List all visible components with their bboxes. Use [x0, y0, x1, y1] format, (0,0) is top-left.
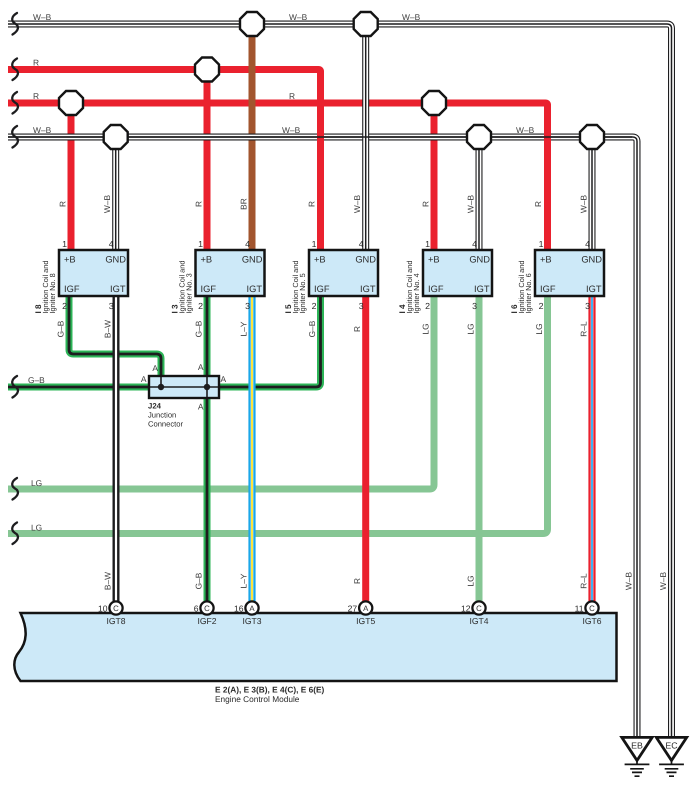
svg-text:IGT: IGT [474, 284, 490, 294]
svg-text:IGF: IGF [540, 284, 556, 294]
junction connector J24 [149, 376, 219, 398]
svg-text:4: 4 [585, 239, 590, 249]
wire W-B row4 to ground EB [8, 137, 637, 738]
svg-text:W–B: W–B [33, 125, 52, 135]
wire R drop to I8 +B [68, 103, 75, 250]
wire G-B I8 IGF to J24 [69, 296, 161, 376]
svg-text:3: 3 [359, 301, 364, 311]
svg-text:Engine Control Module: Engine Control Module [215, 694, 300, 704]
svg-text:IGT5: IGT5 [356, 616, 375, 626]
svg-text:W–B: W–B [289, 12, 308, 22]
svg-text:R–L: R–L [579, 321, 589, 337]
svg-text:C: C [204, 604, 210, 613]
wire W-B drop to I4 GND [476, 137, 483, 250]
svg-text:IGT8: IGT8 [106, 616, 125, 626]
svg-text:L–Y: L–Y [239, 321, 249, 336]
wire W-B drop to I8 GND [112, 137, 119, 250]
svg-text:2: 2 [539, 301, 544, 311]
svg-text:Igniter No. 6: Igniter No. 6 [524, 273, 533, 313]
connector continuation LG row A [12, 478, 18, 500]
svg-text:+B: +B [428, 255, 440, 265]
svg-text:R: R [352, 578, 362, 584]
svg-text:4: 4 [472, 239, 477, 249]
svg-text:A: A [249, 604, 255, 613]
svg-text:B–W: B–W [103, 572, 113, 590]
designator label J24 Junction Connector [148, 402, 184, 429]
name label Ignition Coil and Igniter No. 5 [291, 260, 307, 313]
name label Ignition Coil and Igniter No. 3 [178, 260, 194, 313]
svg-text:Igniter No. 8: Igniter No. 8 [48, 273, 57, 313]
junction connector on row1 feeding I5 GND [354, 12, 378, 36]
wire R row3 horizontal run [8, 100, 544, 107]
svg-text:12: 12 [461, 603, 471, 613]
ignition coil and igniter I 6 (Ignition Coil and Igniter No. 6) [535, 250, 604, 296]
svg-text:IGT4: IGT4 [469, 616, 488, 626]
svg-text:4: 4 [359, 239, 364, 249]
svg-text:G–B: G–B [56, 320, 66, 337]
node: J24 left pin dot [158, 384, 164, 390]
svg-text:2: 2 [62, 301, 67, 311]
junction connector on row3 feeding I4 +B [422, 91, 446, 115]
junction connector on row4 feeding I6 GND [580, 125, 604, 149]
wire W-B drop to I6 GND [589, 137, 596, 250]
svg-text:R: R [194, 201, 204, 207]
wire R corner to I5 +B [315, 70, 321, 251]
ignition coil and igniter I 3 (Ignition Coil and Igniter No. 3) [196, 250, 265, 296]
svg-text:L–Y: L–Y [239, 573, 249, 588]
svg-text:IGT: IGT [110, 284, 126, 294]
svg-text:IGT6: IGT6 [582, 616, 601, 626]
svg-text:W–B: W–B [624, 572, 634, 591]
terminal IGT5: pin 27, connector A [348, 601, 376, 625]
ignition coil and igniter I 5 (Ignition Coil and Igniter No. 5) [309, 250, 378, 296]
svg-text:1: 1 [312, 239, 317, 249]
svg-text:3: 3 [472, 301, 477, 311]
junction connector on row3 feeding I8 +B [59, 91, 83, 115]
junction connector on row2 feeding I3 +B [195, 58, 219, 82]
wire LG I4 IGT to ECM IGT4 [476, 296, 483, 602]
svg-text:IGT: IGT [360, 284, 376, 294]
ground point EC [656, 737, 686, 776]
svg-text:LG: LG [31, 478, 42, 488]
wire W-B drop to I5 GND [362, 24, 369, 250]
svg-text:R: R [533, 201, 543, 207]
svg-text:W–B: W–B [33, 12, 52, 22]
svg-text:R: R [352, 326, 362, 332]
svg-text:R: R [33, 91, 39, 101]
svg-text:+B: +B [201, 255, 213, 265]
svg-text:+B: +B [64, 255, 76, 265]
svg-text:GND: GND [581, 255, 602, 265]
wire BR drop to I3 GND [249, 24, 256, 250]
connector continuation W-B row1 [12, 13, 18, 35]
svg-text:Junction: Junction [148, 411, 176, 420]
junction connector on row1 feeding BR [240, 12, 264, 36]
svg-text:2: 2 [425, 301, 430, 311]
svg-text:R: R [58, 201, 68, 207]
svg-text:Igniter No. 5: Igniter No. 5 [298, 273, 307, 313]
ignition coil and igniter I 4 (Ignition Coil and Igniter No. 4) [423, 250, 492, 296]
connector continuation G-B row [12, 376, 18, 398]
svg-text:LG: LG [534, 323, 544, 334]
svg-text:2: 2 [312, 301, 317, 311]
svg-text:16: 16 [234, 603, 244, 613]
svg-text:GND: GND [105, 255, 126, 265]
svg-text:BR: BR [239, 198, 249, 210]
svg-text:G–B: G–B [194, 320, 204, 337]
wire B-W I8 IGT to ECM IGT8 [113, 296, 120, 602]
svg-text:IGT3: IGT3 [242, 616, 261, 626]
name label Ignition Coil and Igniter No. 4 [405, 260, 421, 313]
svg-text:1: 1 [425, 239, 430, 249]
svg-text:Connector: Connector [148, 420, 184, 429]
svg-text:EC: EC [665, 741, 678, 751]
svg-text:EB: EB [631, 741, 643, 751]
wire R row2 horizontal run [8, 66, 317, 73]
wire R drop to I4 +B [431, 103, 438, 250]
svg-text:W–B: W–B [658, 572, 668, 591]
svg-text:11: 11 [575, 603, 584, 613]
svg-text:G–B: G–B [28, 375, 45, 385]
svg-text:W–B: W–B [466, 195, 476, 214]
svg-text:4: 4 [245, 239, 250, 249]
svg-text:4: 4 [109, 239, 114, 249]
svg-text:C: C [476, 604, 482, 613]
svg-text:W–B: W–B [102, 195, 112, 214]
svg-text:A: A [198, 402, 204, 412]
svg-text:GND: GND [242, 255, 263, 265]
svg-text:IGF: IGF [314, 284, 330, 294]
terminal IGT8: pin 10, connector C [98, 601, 126, 625]
node: J24 right pin dot [204, 384, 210, 390]
engine control module box E 2(A), E 3(B), E 4(C), E 6(E) [14, 613, 616, 681]
svg-text:27: 27 [348, 603, 358, 613]
name label Ignition Coil and Igniter No. 6 [517, 260, 533, 313]
svg-text:A: A [363, 604, 369, 613]
svg-text:R: R [421, 201, 431, 207]
svg-text:W–B: W–B [282, 125, 301, 135]
svg-text:2: 2 [198, 301, 203, 311]
svg-text:B–W: B–W [103, 320, 113, 338]
connector continuation LG row B [12, 523, 18, 545]
svg-text:W–B: W–B [579, 195, 589, 214]
svg-text:R: R [307, 201, 317, 207]
svg-text:Igniter No. 3: Igniter No. 3 [185, 273, 194, 313]
wire LG ECM-to-I4 IGF horizontal run [8, 296, 434, 489]
svg-text:IGF: IGF [428, 284, 444, 294]
wire G-B J24 to I5 IGF [218, 296, 321, 387]
svg-text:1: 1 [539, 239, 544, 249]
svg-text:3: 3 [585, 301, 590, 311]
ignition coil and igniter I 8 (Ignition Coil and Igniter No. 8) [59, 250, 128, 296]
wire LG ECM-to-I6 IGF horizontal run [8, 296, 548, 534]
svg-text:A: A [221, 374, 227, 384]
junction connector on row4 feeding I4 GND [467, 125, 491, 149]
svg-text:1: 1 [198, 239, 203, 249]
svg-text:+B: +B [540, 255, 552, 265]
svg-text:G–B: G–B [307, 320, 317, 337]
svg-text:W–B: W–B [516, 125, 535, 135]
svg-text:3: 3 [109, 301, 114, 311]
svg-text:1: 1 [62, 239, 67, 249]
wire R drop to I3 +B [204, 70, 211, 251]
svg-text:LG: LG [31, 523, 42, 533]
svg-text:R–L: R–L [579, 573, 589, 589]
svg-text:3: 3 [245, 301, 250, 311]
connector continuation W-B row4 [12, 126, 18, 148]
svg-text:R: R [33, 58, 39, 68]
terminal IGF2: pin 6, connector C [194, 601, 217, 625]
svg-text:A: A [152, 363, 158, 373]
junction connector on row4 feeding I8 GND [104, 125, 128, 149]
svg-text:IGT: IGT [247, 284, 263, 294]
wire G-B I3 IGF to ECM IGF2 [204, 296, 211, 602]
svg-text:6: 6 [194, 603, 199, 613]
wire R I5 IGT to ECM IGT5 [362, 296, 369, 602]
svg-text:IGF: IGF [201, 284, 217, 294]
wire L-Y I3 IGT to ECM IGT3 [248, 296, 255, 602]
wire R-L I6 IGT to ECM IGT6 [588, 296, 595, 602]
ground point EB [622, 737, 652, 776]
svg-text:R: R [289, 91, 295, 101]
svg-text:+B: +B [314, 255, 326, 265]
svg-text:A: A [141, 374, 147, 384]
svg-text:C: C [113, 604, 119, 613]
terminal IGT4: pin 12, connector C [461, 601, 489, 625]
svg-text:G–B: G–B [194, 572, 204, 589]
svg-text:IGF2: IGF2 [197, 616, 216, 626]
wire G-B left feed to J24 [8, 384, 150, 391]
svg-text:Igniter No. 4: Igniter No. 4 [412, 273, 421, 313]
svg-text:W–B: W–B [402, 12, 421, 22]
terminal IGT6: pin 11, connector C [575, 601, 602, 625]
svg-text:10: 10 [98, 603, 108, 613]
svg-text:W–B: W–B [352, 195, 362, 214]
name label Ignition Coil and Igniter No. 8 [41, 260, 57, 313]
svg-text:GND: GND [355, 255, 376, 265]
svg-text:IGF: IGF [64, 284, 80, 294]
connector continuation R row3 [12, 92, 18, 114]
svg-text:GND: GND [469, 255, 490, 265]
svg-text:A: A [198, 362, 204, 372]
svg-text:LG: LG [421, 323, 431, 334]
svg-text:IGT: IGT [586, 284, 602, 294]
svg-text:LG: LG [466, 323, 476, 334]
wire W-B row4 center stripe (redrawn over crossing reds) [8, 136, 632, 138]
svg-text:LG: LG [466, 575, 476, 586]
terminal IGT3: pin 16, connector A [234, 601, 262, 625]
svg-text:C: C [589, 604, 595, 613]
connector continuation R row2 [12, 59, 18, 81]
wire R corner to I6 +B [542, 103, 548, 250]
svg-text:J24: J24 [148, 402, 162, 411]
